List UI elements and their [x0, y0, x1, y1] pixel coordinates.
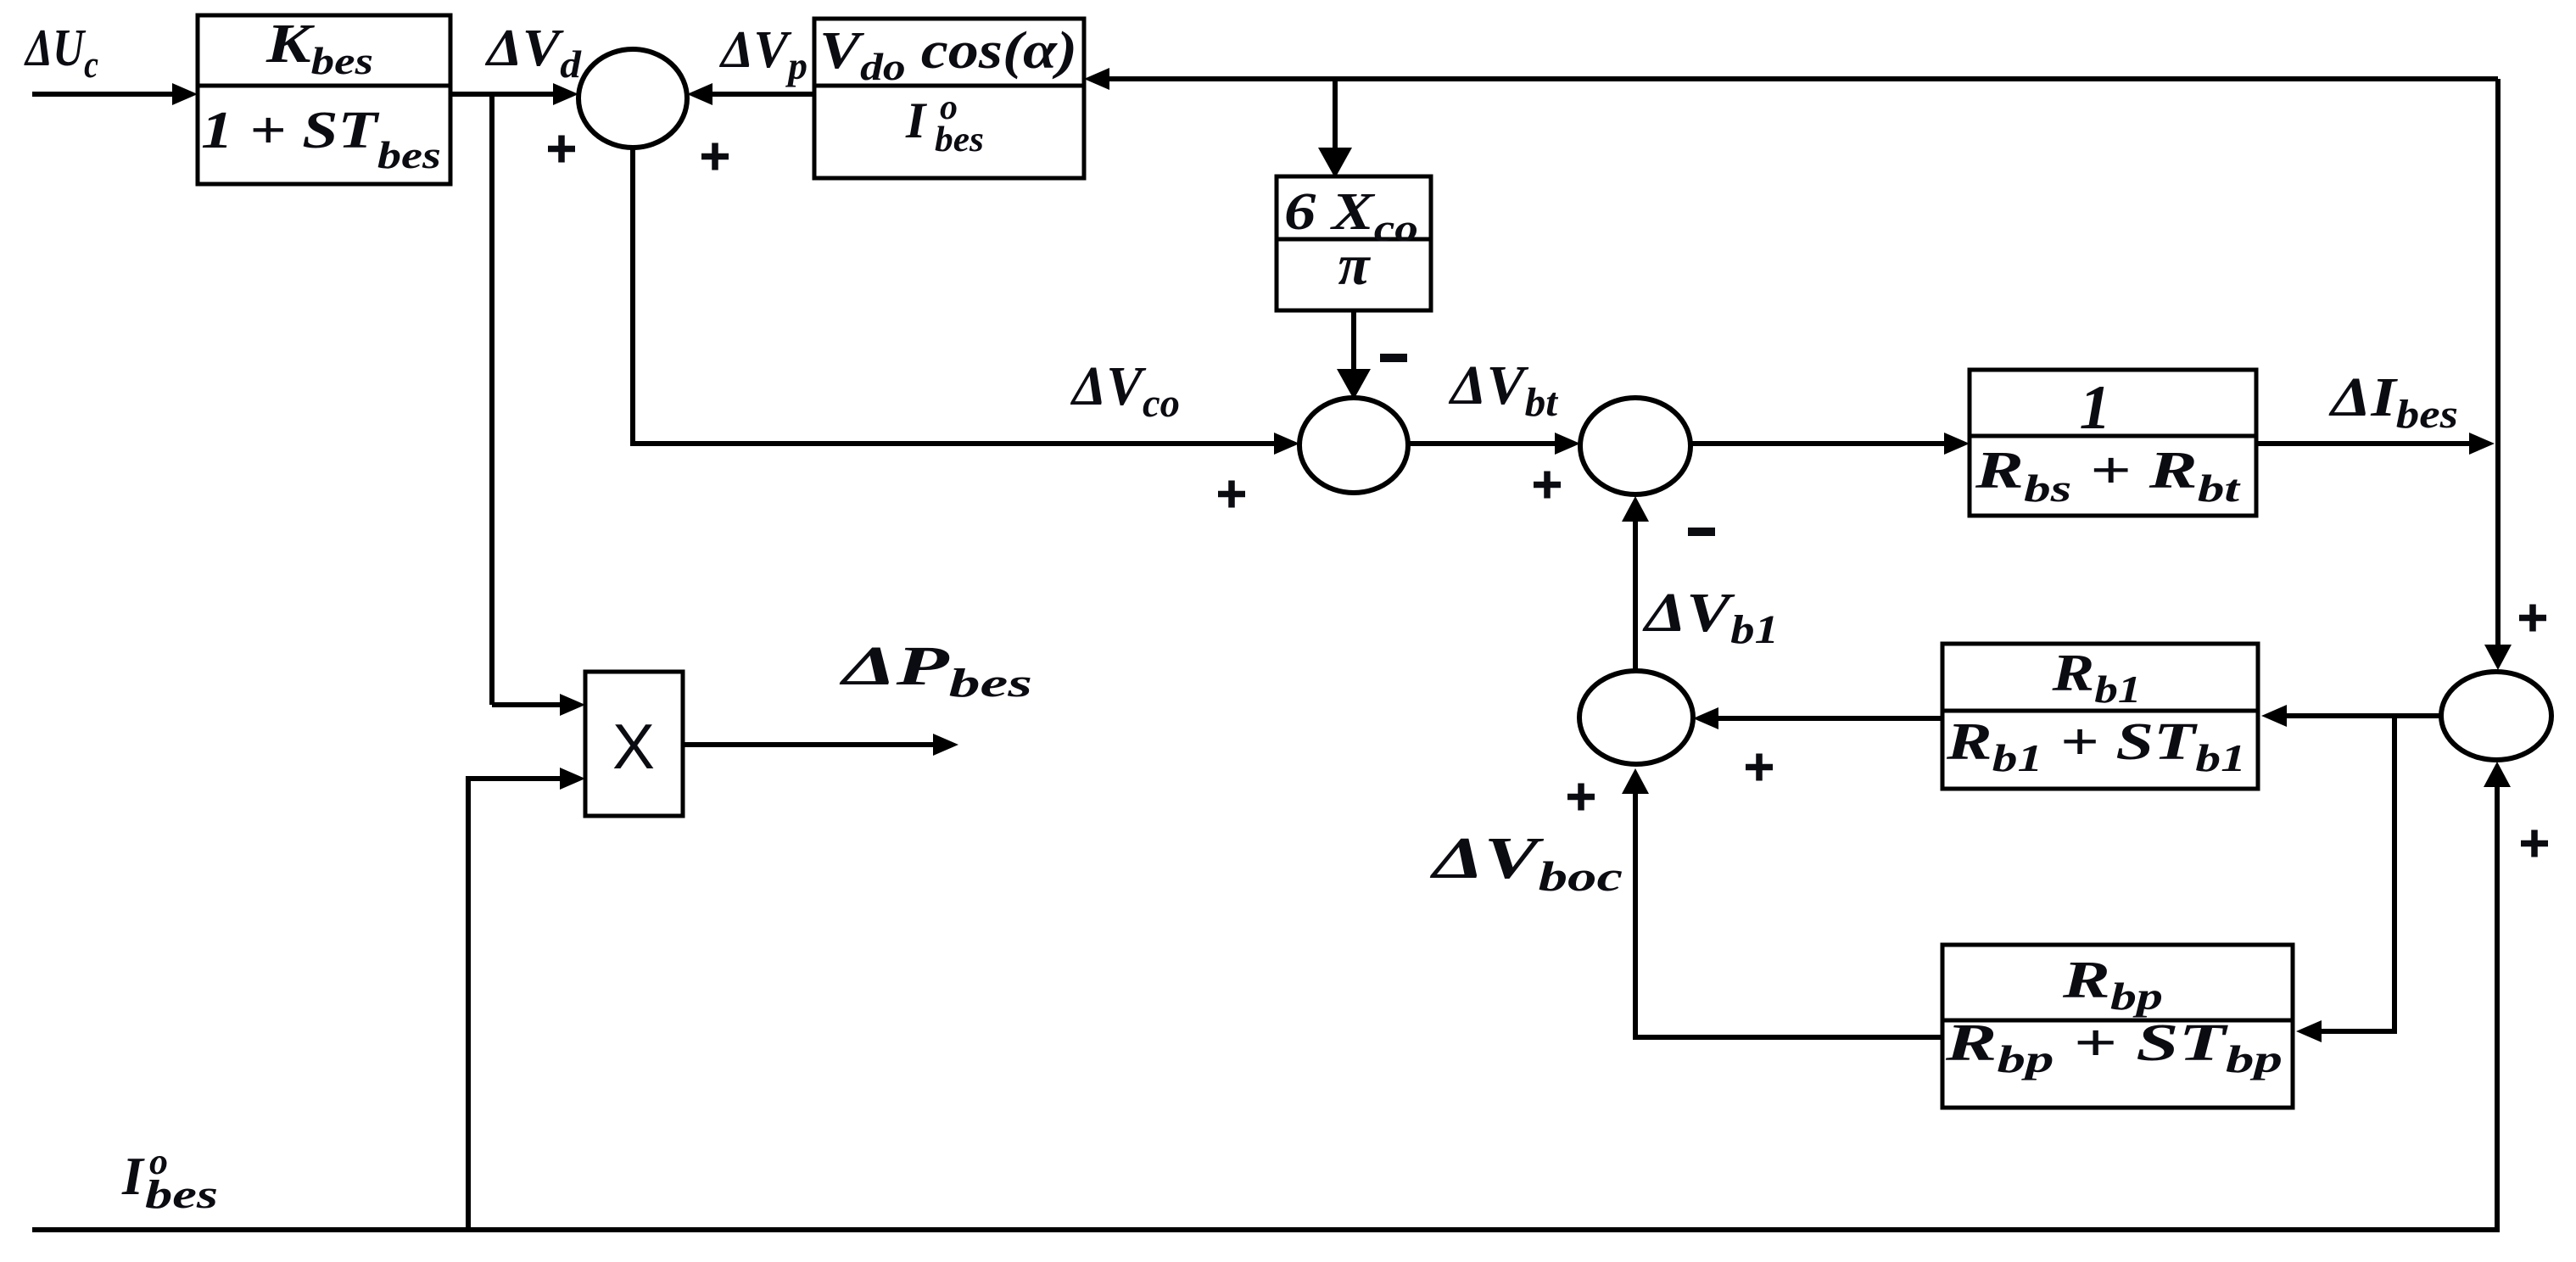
- arrowhead: into S4 right: [1693, 707, 1718, 729]
- wire: dVd into multiplier: [492, 702, 577, 707]
- sign + (Ibes0 into S5): [2521, 840, 2548, 847]
- block B2: Vdo cos(a) / Ibes: [814, 19, 1084, 178]
- arrowhead: into Rb1 right edge: [2261, 705, 2287, 727]
- sign - (dVb1 into S3): [1688, 528, 1715, 536]
- svg-text:bes: bes: [935, 120, 984, 159]
- arrowhead: into S1 from right: [687, 83, 712, 105]
- wire: top feedback line: [1096, 76, 2498, 81]
- label Ibes0 (bottom): [121, 1141, 218, 1217]
- summing junction S5: [2441, 672, 2551, 760]
- svg-text:bes: bes: [145, 1172, 218, 1217]
- wire: input Uc arrow line: [32, 92, 188, 97]
- arrowhead: into S2 left: [1274, 433, 1299, 455]
- block B5: Rb1 / (Rb1+STb1): [1942, 644, 2258, 789]
- arrowhead: into block4: [1944, 433, 1970, 455]
- arrowhead: into S1 from left: [553, 83, 578, 105]
- wire: branch down to Rbp input: [2305, 716, 2394, 1031]
- wire: Ibes0 up from bottom line: [468, 779, 577, 1230]
- block B6: Rbp / (Rbp+STbp): [1942, 945, 2293, 1108]
- sign + (dVco into S2): [1218, 491, 1245, 498]
- wire: S3 to block4: [1690, 441, 1961, 446]
- wire: dVp from block2 to S1: [696, 92, 814, 97]
- wire: multiplier output dPbes: [683, 742, 950, 747]
- sign + (dVp into S1): [701, 154, 729, 160]
- sign + (Rb1 into S4): [1746, 764, 1773, 771]
- wire: S4 output up into S3 (dVb1): [1633, 503, 1638, 671]
- wire: block1 to sum S1: [450, 92, 570, 97]
- wire: block3 output into S2: [1351, 310, 1356, 389]
- arrowhead: into S3 bottom (dVb1): [1622, 496, 1649, 522]
- arrowhead: into S4 bottom (dVboc): [1622, 768, 1649, 794]
- arrowhead: multiplier output: [933, 734, 958, 756]
- arrowhead: into S5 top: [2484, 645, 2512, 670]
- wire: S1 down and right into S2 (dVco): [633, 148, 1291, 444]
- summing junction S3: [1580, 398, 1690, 494]
- summing junction S2: [1299, 398, 1408, 493]
- svg-text:I: I: [905, 92, 928, 148]
- block B2 text: Ibes o: [905, 88, 984, 159]
- arrowhead: into S2 top: [1337, 369, 1371, 399]
- arrowhead: into Rbp right edge: [2296, 1020, 2322, 1042]
- sign + (dIbes into S5): [2519, 615, 2546, 622]
- wire: S2 to S3 (dVbt): [1408, 441, 1572, 446]
- arrowhead: into S5 bottom: [2484, 762, 2511, 787]
- wire: Rbp output left and up into S4 (dVboc): [1635, 777, 1942, 1037]
- summing junction S4: [1579, 671, 1693, 764]
- svg-text:1: 1: [2080, 373, 2111, 443]
- block B1: Kbes / 1+STbes: [198, 15, 450, 184]
- wire: Rb1 output into S4: [1702, 716, 1942, 721]
- wire: S5 output to Rb1: [2270, 713, 2441, 718]
- arrowhead: dIbes into right vertical: [2469, 433, 2495, 455]
- sign - (block3 into S2): [1380, 354, 1407, 362]
- block B4: 1 / (Rbs+Rbt): [1970, 370, 2256, 516]
- arrowhead: into block1: [172, 83, 198, 105]
- wire: drop into block3: [1333, 79, 1338, 168]
- block B3: 6Xco / pi: [1277, 176, 1431, 310]
- arrowhead: into multiplier upper: [560, 694, 585, 716]
- wire: bottom line Ibes0: [32, 768, 2497, 1230]
- arrowhead: into block3 top: [1318, 148, 1352, 178]
- wire: right vertical feedback: [2495, 79, 2501, 660]
- arrowhead: into S3 left: [1555, 433, 1580, 455]
- svg-text:Vdo cos(α): Vdo cos(α): [819, 22, 1077, 88]
- svg-text:π: π: [1338, 232, 1371, 297]
- sign + (dVbt into S3): [1534, 482, 1561, 489]
- arrowhead: into block2 (feedback): [1084, 68, 1109, 90]
- summing junction S1: [578, 49, 687, 148]
- wire: block4 output dIbes to right vertical: [2256, 441, 2486, 446]
- svg-text:I: I: [121, 1146, 145, 1206]
- sign + (dVd into S1): [548, 146, 575, 153]
- svg-text:X: X: [612, 711, 655, 782]
- arrowhead: into multiplier lower: [560, 768, 585, 790]
- sign + (dVboc into S4): [1567, 794, 1595, 801]
- wire: dVd branch vertical down: [489, 94, 495, 705]
- block X: multiplier: [585, 672, 683, 816]
